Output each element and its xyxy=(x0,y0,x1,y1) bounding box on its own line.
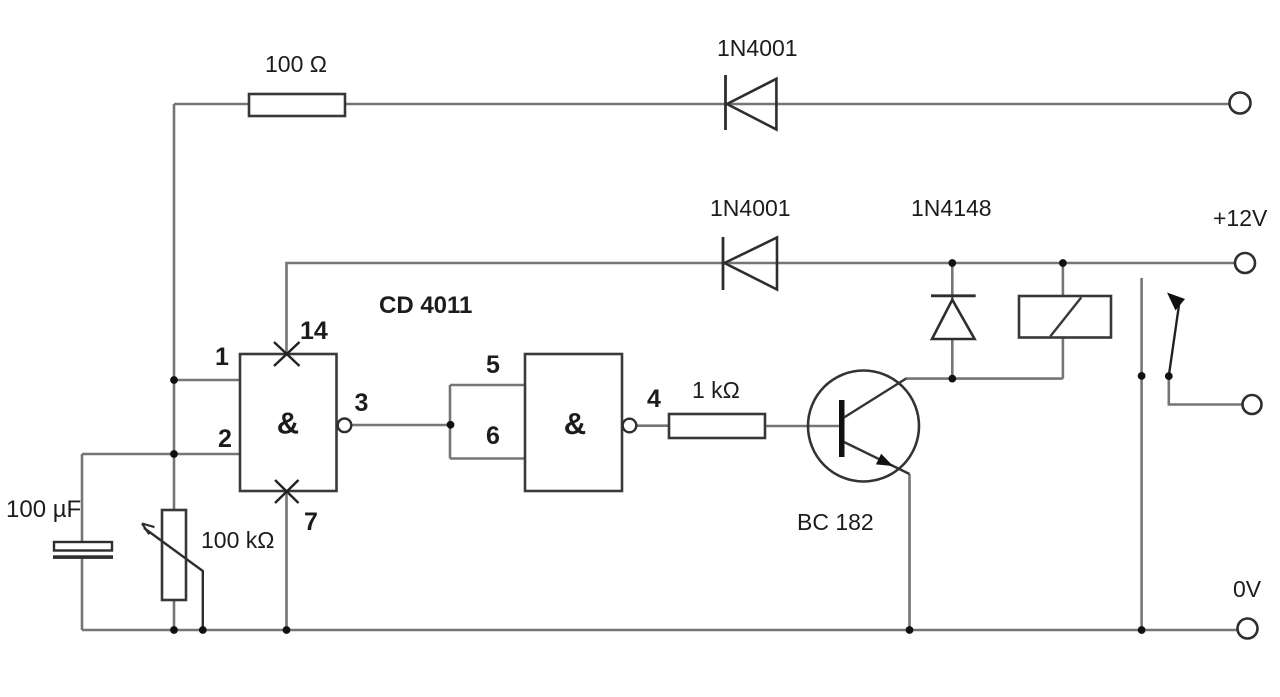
svg-text:1N4148: 1N4148 xyxy=(911,195,992,221)
svg-text:3: 3 xyxy=(355,389,369,417)
svg-text:6: 6 xyxy=(486,422,500,450)
svg-text:+12V: +12V xyxy=(1213,205,1268,231)
svg-text:1 kΩ: 1 kΩ xyxy=(692,377,740,403)
svg-text:100 µF: 100 µF xyxy=(6,496,81,523)
svg-text:5: 5 xyxy=(486,351,500,379)
svg-text:1: 1 xyxy=(215,343,229,371)
svg-text:100 Ω: 100 Ω xyxy=(265,51,327,77)
svg-text:7: 7 xyxy=(304,508,318,536)
svg-text:4: 4 xyxy=(647,385,661,413)
svg-text:&: & xyxy=(277,406,299,441)
svg-text:2: 2 xyxy=(218,425,232,453)
svg-text:14: 14 xyxy=(300,317,328,345)
svg-text:1N4001: 1N4001 xyxy=(717,35,798,61)
svg-text:BC 182: BC 182 xyxy=(797,509,874,535)
svg-text:100 kΩ: 100 kΩ xyxy=(201,527,274,553)
svg-text:0V: 0V xyxy=(1233,576,1262,602)
svg-text:CD 4011: CD 4011 xyxy=(379,292,472,319)
svg-text:&: & xyxy=(564,406,586,441)
svg-text:1N4001: 1N4001 xyxy=(710,195,791,221)
